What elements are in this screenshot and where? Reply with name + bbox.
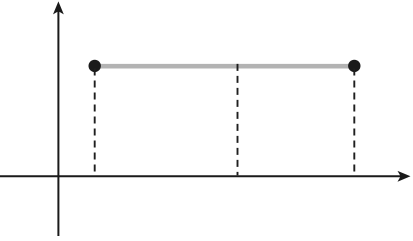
wire: right dashed vertical: [353, 69, 355, 176]
node A: left endpoint dot: [89, 60, 101, 72]
node B: right endpoint dot: [348, 60, 360, 72]
wire: middle dashed vertical: [237, 64, 239, 175]
y-axis: [53, 1, 64, 236]
wire: left dashed vertical: [94, 69, 96, 176]
x-axis: [0, 171, 411, 182]
wire: horizontal gray segment: [95, 64, 355, 69]
